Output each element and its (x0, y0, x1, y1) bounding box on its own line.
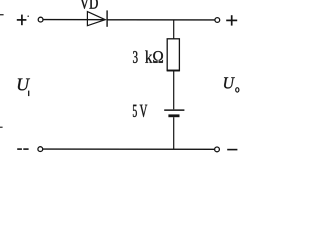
output terminal bottom-right (215, 147, 220, 152)
input terminal top-left (38, 17, 43, 22)
subscript stroke of Ui label (28, 91, 30, 97)
wire resistor to battery (173, 71, 175, 110)
wire battery to bottom rail (173, 117, 175, 149)
label V of 5 V (140, 105, 148, 117)
label U of Uo (224, 77, 235, 88)
diode VD triangle (87, 12, 105, 26)
plus sign top-right (226, 15, 237, 25)
diode VD cathode bar (106, 10, 108, 26)
wire vertical branch from top rail to resistor (173, 20, 175, 39)
minus sign bottom-left (17, 148, 22, 150)
label VD (80, 0, 98, 9)
subscript o of Uo label (236, 88, 239, 92)
input terminal bottom-left (38, 147, 43, 152)
label 3 of 3 kOhm (133, 51, 137, 63)
battery 5V long plate (164, 109, 184, 111)
wire bottom rail (43, 148, 215, 150)
scan speck left edge upper (0, 14, 4, 15)
wire top rail left segment (43, 19, 105, 21)
scan speck dot near plus (27, 15, 29, 17)
wire top rail right segment (107, 19, 215, 21)
minus sign bottom-right (227, 149, 237, 151)
scan speck left edge lower (0, 127, 3, 128)
plus sign top-left (17, 15, 27, 26)
label U of Ui (18, 79, 30, 91)
resistor R 3k body (167, 39, 179, 71)
label kOhm of 3 kOhm (145, 51, 163, 63)
battery 5V short plate (168, 114, 179, 117)
output terminal top-right (215, 18, 220, 23)
label 5 of 5 V (133, 105, 137, 117)
